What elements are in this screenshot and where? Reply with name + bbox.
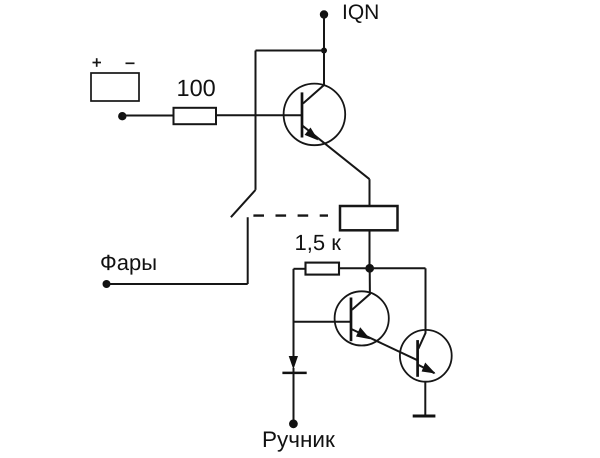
transistor Q3 base bar <box>416 340 419 377</box>
relay K1 coil body <box>340 206 398 230</box>
wire junction B to right branch <box>370 267 426 269</box>
ground <box>413 415 436 418</box>
wire Q1 emitter to relay K1 <box>369 179 371 206</box>
switch SA1 blade <box>231 190 256 217</box>
node Фары terminal <box>103 280 111 288</box>
transistor Q2 emitter arrow <box>356 327 370 339</box>
node: battery output terminal <box>118 112 126 120</box>
wire left rail branch to Q2 base <box>294 321 352 323</box>
diode VD1 cathode bar <box>282 372 306 375</box>
diode VD1 anode triangle <box>289 356 298 370</box>
wire Q3 emitter to ground <box>424 382 426 416</box>
wire IQN terminal down to junction <box>323 15 325 51</box>
transistor Q2 body circle <box>335 291 389 345</box>
transistor Q2 base bar <box>350 298 353 342</box>
node IQN terminal <box>320 10 328 18</box>
transistor Q1 base bar <box>301 92 304 137</box>
battery GB1 <box>91 73 139 101</box>
node Ручник terminal <box>289 419 298 428</box>
wire relay K1 to junction B <box>369 230 371 268</box>
svg-text:Ручник: Ручник <box>262 427 335 452</box>
transistor Q1 emitter arrow <box>305 128 319 141</box>
wire left rail down to diode <box>293 269 295 356</box>
node junction B <box>365 264 374 273</box>
svg-text:1,5 к: 1,5 к <box>295 230 342 255</box>
battery minus label <box>126 62 135 64</box>
wire R1 to Q1 base <box>216 114 302 116</box>
transistor Q3 emitter arrow <box>422 363 436 374</box>
svg-text:IQN: IQN <box>342 1 379 24</box>
svg-text:Фары: Фары <box>100 250 157 275</box>
transistor Q3 collector lead <box>418 331 425 349</box>
transistor Q3 emitter lead <box>418 365 435 374</box>
transistor Q1 collector lead <box>303 51 324 104</box>
transistor Q2 emitter lead <box>351 329 418 360</box>
transistor Q2 collector lead <box>352 268 370 309</box>
wire R2 left to vertical rail <box>294 268 306 270</box>
transistor Q1 emitter lead <box>302 125 370 179</box>
transistor Q1 body circle <box>284 84 346 146</box>
node junction A (top) <box>321 48 327 54</box>
dashed mechanical link to relay K1 <box>253 214 328 216</box>
transistor Q3 body circle <box>400 330 452 382</box>
wire junction A to left <box>256 50 325 52</box>
resistor R1 body <box>174 108 217 124</box>
wire junction B to resistor R2 <box>339 267 370 269</box>
switch lower contact wire <box>247 217 249 284</box>
wire Фары terminal to switch contact <box>107 283 248 285</box>
wire right branch down to Q3 collector <box>425 268 427 331</box>
wire battery terminal to resistor R1 <box>122 115 174 117</box>
wire left branch down to switch <box>255 51 257 190</box>
battery plus label <box>93 58 102 67</box>
wire diode to Ручник terminal <box>293 368 295 424</box>
svg-text:100: 100 <box>177 75 216 101</box>
resistor R2 body <box>306 263 340 275</box>
